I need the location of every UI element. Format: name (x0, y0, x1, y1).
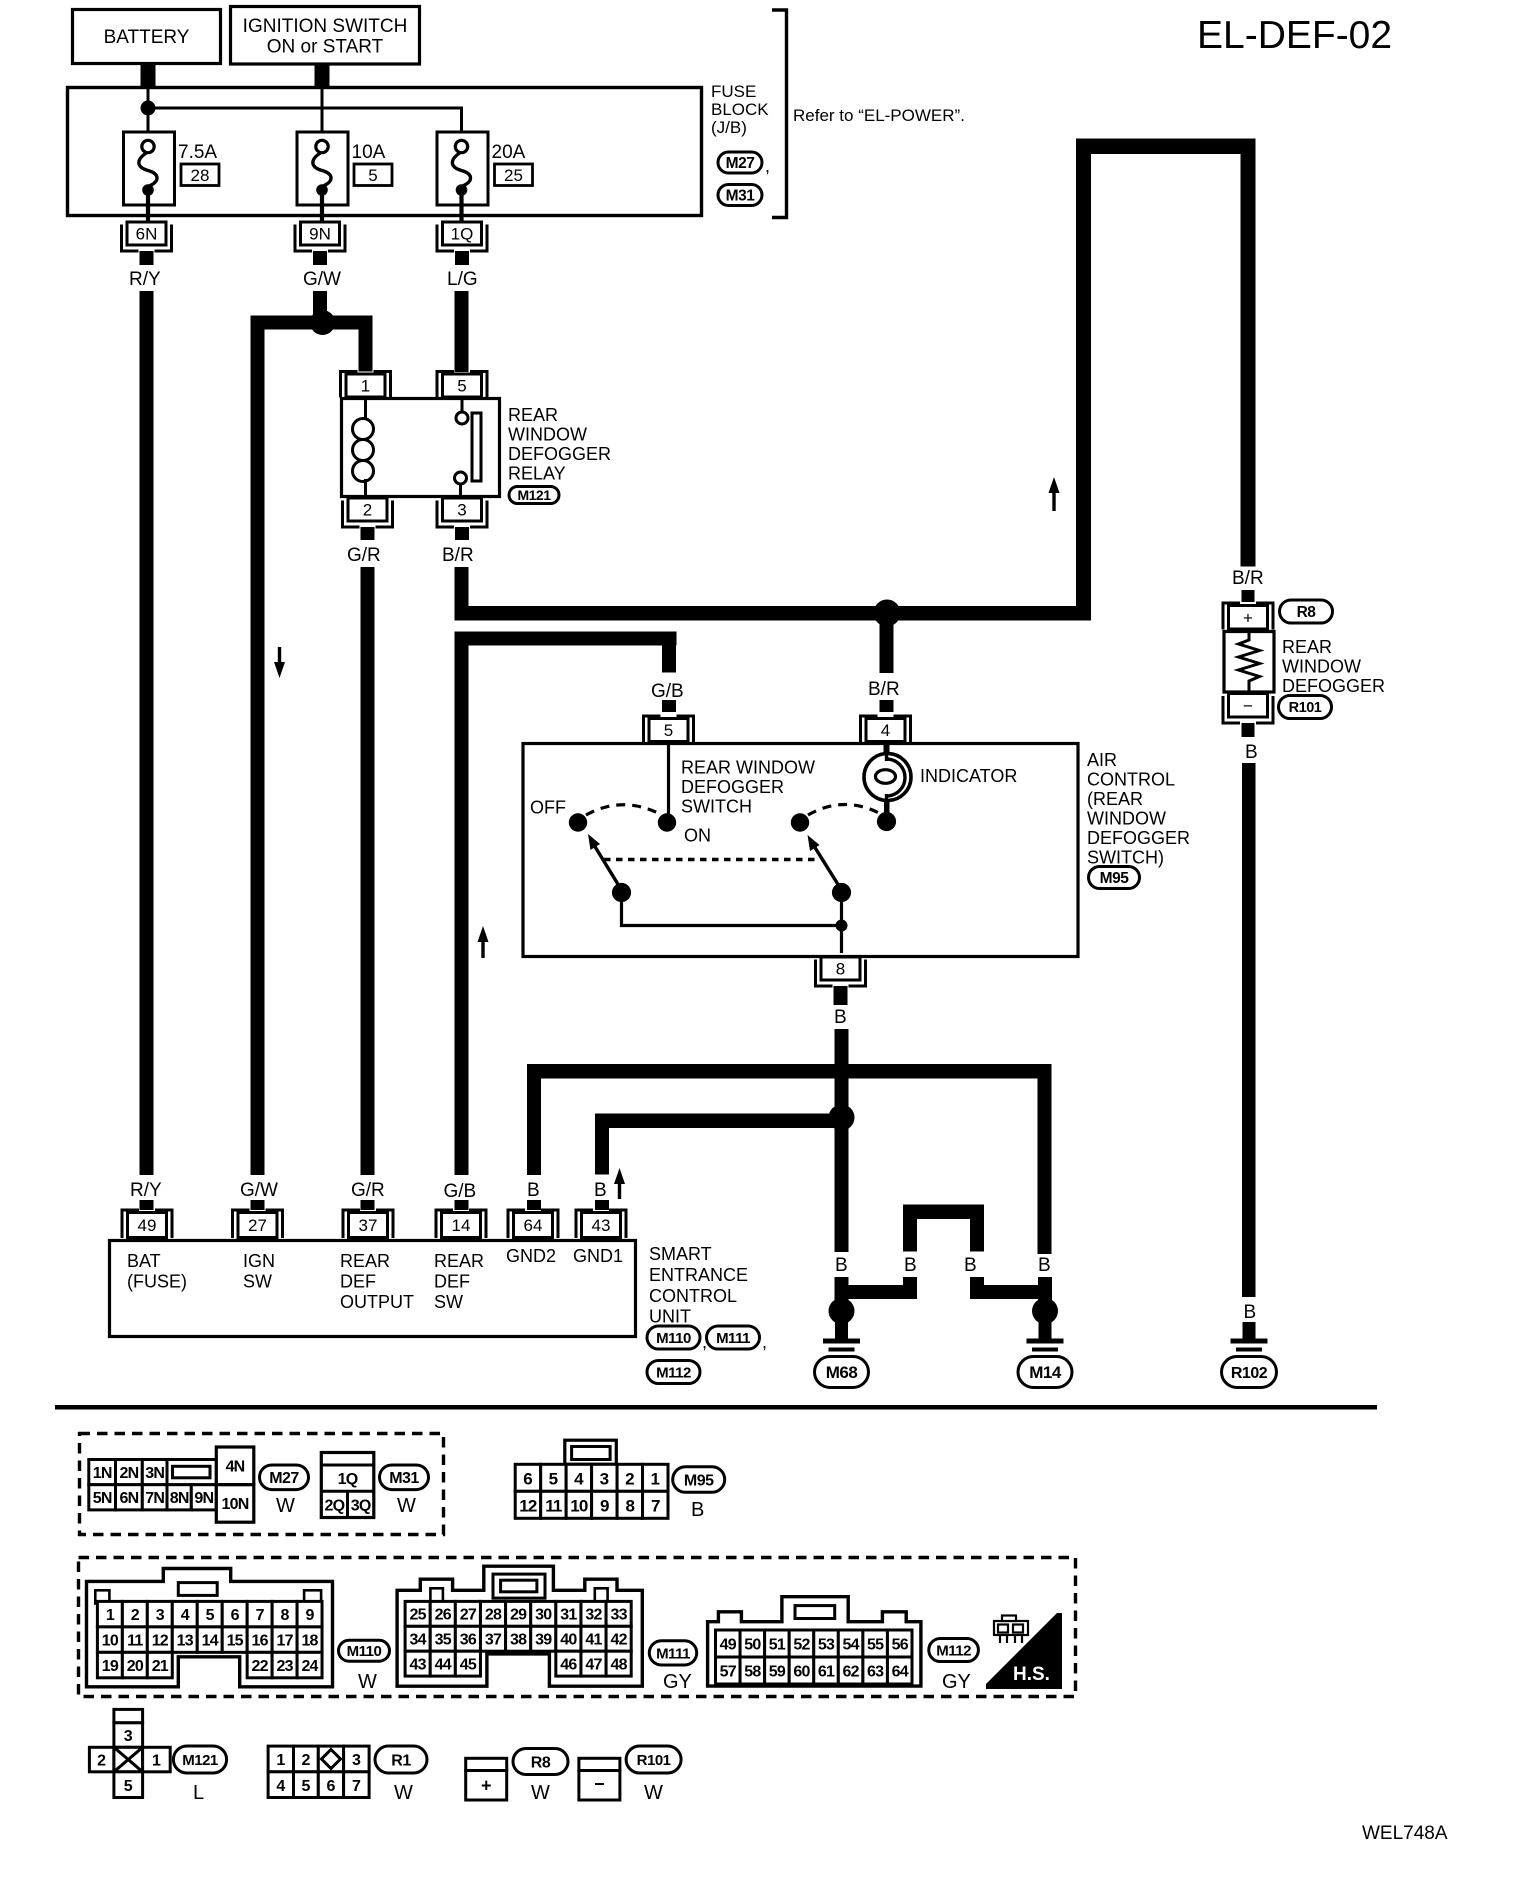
svg-text:IGNITION SWITCH: IGNITION SWITCH (243, 16, 408, 37)
face tag M110 (339, 1640, 390, 1661)
junction B ground bus (829, 1105, 855, 1131)
dashed arc right (808, 804, 879, 815)
wire B right leg to M14 (1038, 1064, 1052, 1254)
svg-text:15: 15 (227, 1632, 244, 1649)
svg-text:B: B (835, 1255, 848, 1276)
wire M68 dot to ground (835, 1322, 848, 1340)
svg-text:43: 43 (592, 1216, 611, 1235)
svg-text:W: W (394, 1782, 413, 1804)
svg-text:REAR: REAR (434, 1251, 484, 1271)
fuse F28 7.5A (124, 132, 175, 205)
svg-text:R8: R8 (1297, 604, 1317, 621)
svg-text:R/Y: R/Y (129, 269, 161, 290)
fuse number 5 (354, 164, 392, 186)
svg-text:(REAR: (REAR (1087, 789, 1143, 809)
svg-text:4: 4 (881, 721, 890, 740)
wire stub R102 (1243, 1322, 1256, 1340)
svg-text:B: B (1038, 1255, 1051, 1276)
contact right A (791, 813, 809, 831)
svg-text:DEF: DEF (340, 1272, 376, 1292)
svg-text:26: 26 (435, 1607, 452, 1624)
svg-text:M68: M68 (826, 1363, 858, 1382)
svg-text:M111: M111 (656, 1645, 690, 1662)
svg-text:2: 2 (625, 1470, 634, 1489)
svg-text:DEFOGGER: DEFOGGER (1087, 828, 1190, 848)
svg-text:UNIT: UNIT (649, 1307, 691, 1327)
relay name label (508, 405, 611, 484)
face tag R1 (375, 1746, 427, 1773)
svg-text:3: 3 (600, 1470, 609, 1489)
relay pin 5 (437, 372, 487, 398)
svg-text:10: 10 (570, 1497, 588, 1516)
control unit pin 27 (233, 1210, 283, 1238)
wire jumper left leg foot (842, 1277, 917, 1299)
svg-text:60: 60 (793, 1663, 810, 1680)
svg-text:6N: 6N (136, 225, 158, 244)
svg-text:G/R: G/R (351, 1180, 385, 1201)
arrow up on G/B wire (478, 926, 489, 958)
svg-text:5: 5 (457, 377, 466, 396)
svg-text:27: 27 (460, 1607, 477, 1624)
svg-text:WINDOW: WINDOW (1087, 809, 1166, 829)
face tag M111 (649, 1641, 696, 1665)
connector M27 tag (718, 152, 762, 173)
switch connector tag M95 (1089, 867, 1140, 889)
svg-text:12: 12 (152, 1632, 169, 1649)
svg-text:M27: M27 (269, 1470, 299, 1487)
svg-text:SMART: SMART (649, 1244, 712, 1264)
svg-text:3: 3 (156, 1607, 165, 1624)
svg-text:CONTROL: CONTROL (649, 1286, 737, 1306)
wire ignition switch to fuse block (315, 64, 330, 88)
svg-text:GY: GY (942, 1671, 971, 1693)
face tag R8 (513, 1749, 568, 1775)
connector face M95 (515, 1440, 668, 1518)
control unit name (649, 1244, 748, 1327)
svg-text:11: 11 (545, 1497, 562, 1516)
svg-text:46: 46 (560, 1656, 577, 1673)
svg-text:4: 4 (574, 1470, 584, 1489)
connector face M112 (708, 1597, 921, 1686)
svg-text:38: 38 (510, 1632, 527, 1649)
svg-text:19: 19 (102, 1658, 119, 1675)
wire B GND1 vertical (595, 1114, 609, 1175)
svg-text:R8: R8 (531, 1754, 551, 1771)
switch pin 4 (861, 716, 911, 742)
wire G/W to relay pin 1 (359, 316, 373, 372)
face tag M31 (380, 1465, 429, 1490)
svg-text:30: 30 (535, 1607, 552, 1624)
svg-text:4: 4 (181, 1607, 190, 1624)
svg-text:+: + (1243, 608, 1253, 627)
svg-text:8N: 8N (170, 1490, 189, 1507)
wire fuse 25 to 1Q (459, 195, 463, 222)
wire G/W long vertical (251, 316, 265, 1176)
svg-text:R101: R101 (637, 1752, 671, 1769)
defogger tag R8 (1280, 600, 1333, 623)
dashed group box M27/M31 (80, 1434, 444, 1535)
svg-text:B: B (1245, 742, 1258, 763)
svg-text:M31: M31 (389, 1470, 419, 1487)
svg-text:OFF: OFF (530, 798, 566, 818)
fuse F5 10A (297, 132, 348, 205)
wire G/R vertical (361, 567, 375, 1175)
svg-text:SWITCH): SWITCH) (1087, 848, 1164, 868)
svg-text:7N: 7N (145, 1490, 164, 1507)
wire G/B down to switch pin 5 (662, 632, 676, 673)
svg-text:B: B (691, 1499, 704, 1521)
wire B/R right leg to defogger (1241, 139, 1256, 567)
svg-text:M31: M31 (726, 188, 756, 205)
svg-text:9N: 9N (309, 225, 331, 244)
svg-text:CONTROL: CONTROL (1087, 770, 1175, 790)
svg-text:M112: M112 (936, 1642, 971, 1659)
pivot left (612, 883, 631, 902)
svg-text:51: 51 (769, 1636, 786, 1653)
svg-text:Refer to “EL-POWER”.: Refer to “EL-POWER”. (793, 106, 965, 125)
svg-text:W: W (531, 1782, 550, 1804)
relay coil (353, 419, 374, 440)
svg-text:1: 1 (106, 1607, 115, 1624)
svg-text:56: 56 (892, 1636, 909, 1653)
svg-text:64: 64 (892, 1663, 909, 1680)
connector M31 tag (718, 185, 762, 206)
wire stub to defogger plus (1242, 590, 1255, 602)
svg-text:L: L (193, 1782, 204, 1804)
svg-text:42: 42 (611, 1632, 628, 1649)
svg-text:52: 52 (793, 1636, 810, 1653)
svg-text:(FUSE): (FUSE) (127, 1272, 187, 1292)
wire stub to M68 (835, 1277, 849, 1300)
svg-text:W: W (397, 1495, 416, 1517)
svg-text:4N: 4N (226, 1459, 245, 1476)
wire stub to M14 (1038, 1277, 1052, 1300)
wire stub pin 37 (361, 1200, 375, 1210)
wire G/B long vertical to pin 14 (455, 646, 469, 1176)
svg-text:14: 14 (452, 1216, 471, 1235)
fuse number 25 (495, 164, 533, 186)
junction at M68 (829, 1298, 855, 1324)
svg-text:18: 18 (301, 1632, 318, 1649)
fuse F25 20A (437, 132, 488, 205)
face tag M112 (929, 1639, 979, 1662)
wire B GND1 horizontal (595, 1114, 842, 1129)
svg-text:M121: M121 (182, 1752, 218, 1769)
control unit pin 64 (508, 1210, 558, 1238)
svg-text:10N: 10N (222, 1496, 249, 1513)
relay contact (461, 398, 464, 412)
connector face M31 (321, 1453, 374, 1518)
dashed group box M110/M111/M112 (79, 1558, 1076, 1697)
svg-text:−: − (1243, 696, 1253, 715)
H.S. logo (986, 1613, 1062, 1689)
svg-text:SW: SW (434, 1292, 463, 1312)
ground tag M68 (815, 1357, 869, 1388)
wire G/W branch horizontal (251, 316, 373, 330)
svg-text:45: 45 (460, 1656, 477, 1673)
fuse block label (711, 82, 769, 137)
svg-text:W: W (276, 1495, 295, 1517)
contact OFF left (569, 813, 587, 831)
svg-text:AIR: AIR (1087, 750, 1117, 770)
svg-text:7.5A: 7.5A (178, 142, 217, 163)
smart entrance control unit box (110, 1241, 636, 1337)
svg-text:SWITCH: SWITCH (681, 797, 752, 817)
wire G/W upper vertical (313, 291, 327, 316)
wire stub to pin 4 (880, 700, 894, 712)
svg-text:22: 22 (252, 1658, 269, 1675)
svg-text:,: , (765, 156, 770, 176)
wire stub to pin 5 (662, 700, 676, 712)
svg-text:B: B (1244, 1302, 1257, 1323)
svg-text:5: 5 (368, 166, 377, 185)
junction switch output (836, 920, 848, 932)
svg-text:50: 50 (744, 1636, 761, 1653)
svg-text:R102: R102 (1231, 1365, 1268, 1382)
svg-text:M110: M110 (656, 1330, 691, 1347)
svg-text:4: 4 (276, 1778, 285, 1795)
svg-text:44: 44 (435, 1656, 452, 1673)
svg-text:5: 5 (124, 1778, 133, 1795)
svg-text:14: 14 (202, 1632, 219, 1649)
svg-text:M95: M95 (1100, 870, 1130, 887)
dashed arc left (586, 805, 660, 815)
wire stub pin 14 (455, 1200, 469, 1210)
connector face M27 (89, 1447, 254, 1522)
svg-text:28: 28 (191, 166, 210, 185)
defogger terminal - (R101) (1223, 694, 1273, 724)
svg-text:REAR: REAR (340, 1251, 390, 1271)
control unit pin 43 (576, 1210, 626, 1238)
svg-text:R/Y: R/Y (130, 1180, 162, 1201)
svg-text:B/R: B/R (868, 679, 900, 700)
switch pin 8 (816, 957, 866, 986)
wire stub 1Q (455, 251, 469, 265)
wire L/G to relay pin 5 (455, 291, 469, 372)
svg-text:3: 3 (352, 1752, 361, 1769)
svg-text:20A: 20A (492, 142, 526, 163)
svg-text:1: 1 (651, 1470, 660, 1489)
svg-text:ENTRANCE: ENTRANCE (649, 1265, 748, 1285)
svg-text:BAT: BAT (127, 1251, 161, 1271)
air control switch box M95 (523, 744, 1078, 957)
svg-text:R1: R1 (391, 1752, 411, 1769)
svg-text:B/R: B/R (442, 545, 474, 566)
svg-text:INDICATOR: INDICATOR (920, 766, 1017, 786)
svg-text:63: 63 (867, 1663, 884, 1680)
svg-text:11: 11 (127, 1632, 143, 1649)
wire stub relay pin 2 (361, 527, 375, 540)
svg-text:32: 32 (585, 1607, 602, 1624)
svg-text:9: 9 (600, 1497, 609, 1516)
rear window defogger R8/R101 resistor (1224, 631, 1274, 692)
defogger terminal + (R8) (1223, 603, 1273, 630)
svg-text:12: 12 (519, 1497, 537, 1516)
wire battery to fuse block (141, 64, 156, 88)
junction at M14 (1032, 1298, 1058, 1324)
wire R/Y vertical (140, 291, 154, 1175)
svg-text:M14: M14 (1029, 1363, 1062, 1382)
svg-text:M121: M121 (517, 487, 551, 503)
wire B/R horizontal bus (455, 606, 1091, 621)
svg-text:5: 5 (664, 721, 673, 740)
svg-text:RELAY: RELAY (508, 464, 566, 484)
svg-text:6: 6 (231, 1607, 240, 1624)
switch bottom wiring (622, 899, 842, 953)
contact ON left (658, 813, 676, 831)
svg-text:1Q: 1Q (451, 225, 474, 244)
svg-text:DEF: DEF (434, 1272, 470, 1292)
relay M121 rear window defogger relay (342, 398, 500, 497)
svg-text:6: 6 (523, 1470, 532, 1489)
svg-text:10A: 10A (352, 142, 386, 163)
svg-text:2Q: 2Q (325, 1498, 345, 1515)
svg-text:21: 21 (152, 1658, 169, 1675)
svg-text:IGN: IGN (243, 1251, 275, 1271)
junction B/R (874, 600, 901, 627)
face tag M121 (173, 1746, 226, 1773)
svg-text:2: 2 (301, 1752, 310, 1769)
svg-text:40: 40 (560, 1632, 577, 1649)
connector face R101 (579, 1758, 620, 1800)
ground symbol M14 (1027, 1341, 1064, 1358)
svg-text:3N: 3N (145, 1465, 164, 1482)
svg-text:WINDOW: WINDOW (1282, 657, 1361, 677)
svg-text:37: 37 (359, 1216, 378, 1235)
connector pin 1Q (437, 222, 487, 251)
svg-text:6: 6 (327, 1778, 336, 1795)
svg-text:17: 17 (276, 1632, 293, 1649)
switch pin 5 (644, 716, 694, 742)
wire M14 dot to ground (1039, 1322, 1052, 1340)
svg-text:24: 24 (301, 1658, 318, 1675)
svg-text:M110: M110 (347, 1643, 382, 1660)
svg-text:36: 36 (460, 1632, 477, 1649)
wire B middle jumper (903, 1205, 984, 1252)
wire B/R riser left leg (1076, 139, 1091, 621)
svg-text:+: + (481, 1776, 492, 1796)
wire stub pin 43 (595, 1200, 609, 1210)
svg-text:B: B (904, 1255, 917, 1276)
pivot right (832, 883, 851, 902)
svg-text:5: 5 (301, 1778, 310, 1795)
wire stub pin 64 (527, 1200, 541, 1210)
svg-text:SW: SW (243, 1272, 272, 1292)
wire battery feed inside fuse block (148, 88, 462, 145)
svg-text:62: 62 (842, 1663, 859, 1680)
svg-text:3Q: 3Q (351, 1498, 371, 1515)
svg-text:3: 3 (457, 501, 466, 520)
svg-text:7: 7 (352, 1778, 361, 1795)
svg-text:M112: M112 (656, 1364, 691, 1381)
svg-text:L/G: L/G (447, 269, 478, 290)
svg-text:28: 28 (485, 1607, 502, 1624)
wire stub pin 49 (140, 1200, 154, 1210)
svg-text:20: 20 (127, 1658, 144, 1675)
svg-text:7: 7 (651, 1497, 660, 1516)
svg-text:,: , (762, 1332, 767, 1352)
wire B/R top horizontal (1076, 139, 1255, 155)
svg-text:G/B: G/B (651, 681, 684, 702)
svg-text:1: 1 (361, 377, 370, 396)
connector face M121 (89, 1709, 170, 1797)
face tag M27 (260, 1465, 309, 1490)
svg-text:8: 8 (836, 960, 845, 979)
arrow up at GND1 (614, 1168, 625, 1199)
control unit tag M110 (647, 1326, 700, 1349)
svg-text:GND1: GND1 (573, 1246, 623, 1266)
relay pin 2 (343, 498, 393, 527)
connector face M110 (87, 1569, 333, 1687)
arrow up on B/R riser (1049, 477, 1060, 511)
ground symbol M68 (823, 1341, 860, 1358)
defogger tag R101 (1279, 696, 1332, 719)
ground symbol R102 (1231, 1341, 1268, 1358)
svg-text:BLOCK: BLOCK (711, 100, 769, 119)
svg-text:REAR: REAR (1282, 637, 1332, 657)
switch arm left (588, 834, 622, 890)
wire jumper right leg foot (970, 1277, 1045, 1299)
svg-text:64: 64 (524, 1216, 543, 1235)
svg-text:FUSE: FUSE (711, 82, 756, 101)
connector face R8 (466, 1758, 507, 1800)
svg-text:B: B (594, 1180, 607, 1201)
svg-text:31: 31 (560, 1607, 577, 1624)
svg-text:B/R: B/R (1232, 568, 1264, 589)
svg-text:59: 59 (769, 1663, 786, 1680)
svg-text:16: 16 (252, 1632, 269, 1649)
svg-text:3: 3 (124, 1728, 133, 1745)
svg-text:DEFOGGER: DEFOGGER (1282, 676, 1385, 696)
wire stub pin 27 (251, 1200, 265, 1210)
svg-text:48: 48 (611, 1656, 628, 1673)
wire stub relay pin 3 (455, 527, 469, 540)
svg-text:R101: R101 (1289, 700, 1322, 716)
wire fuse 5 to 9N (320, 195, 324, 222)
svg-text:M27: M27 (726, 155, 755, 172)
wire stub below defogger (1242, 723, 1255, 737)
control unit pin 49 (122, 1210, 172, 1238)
face tag R101 (626, 1746, 681, 1773)
control unit pin 37 (343, 1210, 393, 1238)
svg-text:25: 25 (410, 1607, 427, 1624)
switch name label (681, 758, 815, 817)
wire fuse 28 to 6N (146, 195, 150, 222)
wire pin5 into switch (667, 743, 670, 817)
svg-text:6N: 6N (119, 1490, 138, 1507)
switch arm right (808, 835, 842, 890)
svg-text:34: 34 (410, 1632, 427, 1649)
wire stub pin 8 (834, 986, 848, 1005)
svg-text:BATTERY: BATTERY (104, 27, 190, 48)
contact right B under indicator (877, 812, 896, 831)
connector pin 9N (295, 222, 345, 251)
connector face R1 (268, 1746, 369, 1797)
face tag M95 (673, 1467, 725, 1493)
battery B1 (73, 10, 221, 64)
wire B from pin 8 (835, 1029, 849, 1252)
svg-text:W: W (644, 1782, 663, 1804)
svg-text:2N: 2N (119, 1465, 138, 1482)
junction battery feed (141, 101, 156, 116)
svg-text:29: 29 (510, 1607, 527, 1624)
svg-text:G/B: G/B (444, 1181, 477, 1202)
svg-text:54: 54 (842, 1636, 859, 1653)
svg-text:W: W (358, 1671, 377, 1693)
svg-text:G/W: G/W (303, 269, 341, 290)
svg-text:WINDOW: WINDOW (508, 425, 587, 445)
svg-text:GND2: GND2 (506, 1246, 556, 1266)
